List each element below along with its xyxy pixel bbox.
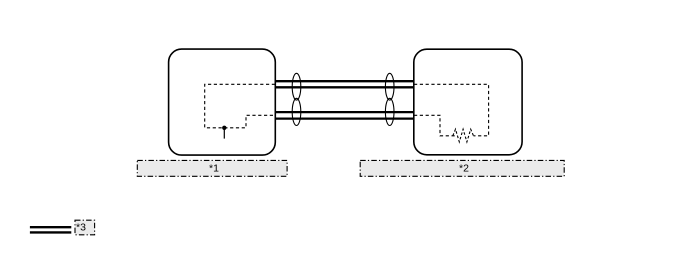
svg-text:*3: *3 [76,222,86,234]
label bar *1 [137,160,287,176]
svg-text:*2: *2 [459,163,469,175]
wire: upper twisted-pair line A [275,80,415,82]
ECU module box U1 (left) [169,49,276,155]
twist symbol ellipse, left column lower [292,98,301,125]
ECU module box U2 (right) [414,49,522,155]
wire: dashed internal lower branch of right ECU [414,115,455,136]
twist symbol ellipse, right column upper [385,73,394,100]
wire: dashed internal circuit of left ECU [205,84,275,128]
label bar *2 [360,160,564,176]
resistor R (terminating resistor in right ECU) [453,129,474,142]
wire: stub below junction dot [223,129,225,139]
wire: dashed internal upper branch of right ECU [414,84,489,136]
legend: twisted-pair symbol line A [30,226,71,228]
legend label box *3 [75,220,95,235]
svg-text:*1: *1 [209,163,219,175]
wire: lower twisted-pair line B [275,117,415,119]
wire: upper twisted-pair line B [275,86,415,88]
twist symbol ellipse, right column lower [385,98,394,125]
node: junction dot in left ECU [222,126,226,130]
twist symbol ellipse, left column upper [292,73,301,100]
wire: lower twisted-pair line A [275,111,415,113]
legend: twisted-pair symbol line B [30,231,71,233]
